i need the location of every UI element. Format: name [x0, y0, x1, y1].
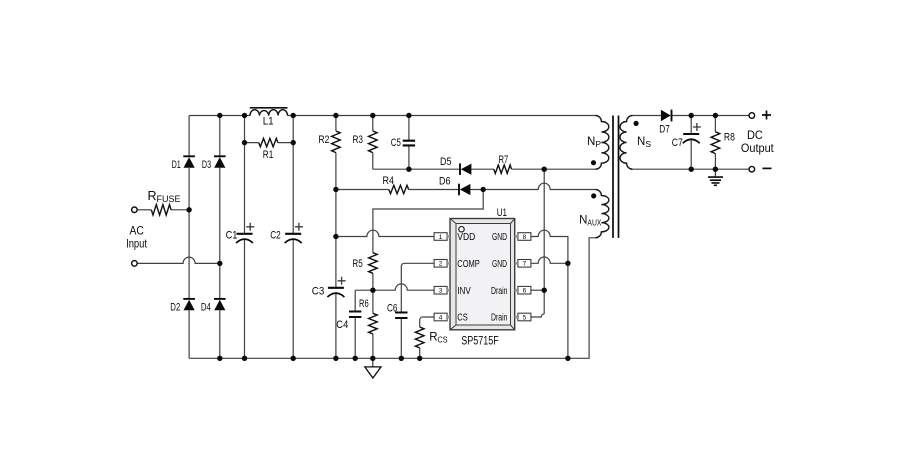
junction R3 top [370, 113, 375, 118]
junction C1 rail [242, 356, 247, 361]
junction R1 right [291, 140, 296, 145]
wire D6 node down-left to R5 [373, 190, 483, 253]
svg-text:C5: C5 [391, 137, 401, 149]
svg-text:SP5715F: SP5715F [461, 333, 499, 347]
junction R2 top [333, 113, 338, 118]
ground (earth ground below R8) [708, 169, 723, 185]
svg-text:AC: AC [130, 223, 145, 237]
svg-text:4: 4 [439, 314, 443, 321]
wire drain line to primary return [543, 169, 545, 314]
resistor R7 [494, 165, 512, 173]
diode D6 [459, 184, 470, 196]
svg-text:D4: D4 [201, 302, 211, 314]
junction neutral-bridge node [217, 261, 222, 266]
capacitor C6 [395, 313, 407, 319]
svg-text:GND: GND [492, 232, 507, 243]
svg-text:DC: DC [747, 128, 763, 142]
resistor R8 [711, 132, 720, 154]
junction R4 left node [333, 187, 338, 192]
transformer auxiliary winding NAUX [595, 190, 608, 238]
wire INV line (hops over C6 leg) [355, 284, 434, 290]
junction C6 rail [399, 356, 404, 361]
wire R8 leg [714, 116, 716, 170]
svg-text:R7: R7 [499, 154, 509, 166]
svg-text:3: 3 [439, 288, 443, 295]
resistor R1 [259, 138, 278, 146]
resistor R3 [369, 131, 378, 153]
diode D1 [183, 156, 195, 167]
wire C5 column [408, 116, 410, 170]
capacitor C4 [349, 312, 361, 318]
svg-text:D7: D7 [659, 124, 670, 136]
node NAUX polarity dot [591, 193, 596, 198]
diode D7 [661, 110, 672, 122]
wire pin6 drain stub [531, 289, 544, 291]
transformer secondary winding NS [620, 116, 633, 170]
pin 1 box [434, 233, 450, 241]
capacitor C1 [236, 223, 254, 243]
svg-text:NP: NP [587, 136, 601, 149]
pin 7 box [515, 260, 531, 268]
junction D6 anode node [481, 187, 486, 192]
op-amp U1 body (SP5715F controller IC) [450, 219, 515, 330]
junction C4 rail [353, 356, 358, 361]
junction fuse-bridge node [186, 207, 191, 212]
svg-text:R3: R3 [353, 134, 364, 146]
wire D6 anode to aux winding (hops over drain line) [470, 183, 595, 189]
junction R8 bottom [713, 167, 718, 172]
junction C3 rail [333, 356, 338, 361]
svg-text:U1: U1 [497, 207, 507, 219]
wire R2-C3 column [335, 116, 337, 359]
junction D3-D4 rail [217, 356, 222, 361]
pin 1 indicator circle [459, 227, 464, 232]
svg-text:NS: NS [637, 136, 651, 149]
svg-text:Input: Input [126, 236, 147, 250]
wire C7 leg [690, 116, 692, 170]
wire D7 to DC+ terminal [672, 115, 749, 117]
svg-text:VDD: VDD [457, 232, 475, 243]
svg-text:7: 7 [523, 261, 527, 268]
wire AC line input to fuse [137, 209, 151, 211]
diode D2 [183, 299, 195, 310]
pin 2 box [434, 260, 450, 268]
svg-text:L1: L1 [263, 116, 274, 128]
pin 3 box [434, 286, 450, 294]
wire R6 to ground rail [372, 290, 374, 358]
wire pin7 GND line (hops over drain line) [531, 257, 568, 263]
wire CS line and RCS leg [420, 317, 434, 358]
terminal DC plus [749, 113, 755, 119]
diode D5 [460, 163, 471, 175]
svg-text:R8: R8 [724, 131, 735, 143]
terminal AC line [132, 207, 138, 213]
diode D4 [214, 299, 226, 310]
resistor RFUSE [151, 205, 171, 215]
svg-text:C7: C7 [672, 137, 683, 149]
wire R4 to D6 cathode [409, 189, 459, 191]
ground (signal ground triangle under R6) [365, 358, 381, 378]
svg-text:D3: D3 [202, 159, 211, 171]
svg-text:RFUSE: RFUSE [148, 189, 181, 204]
svg-text:C2: C2 [270, 230, 281, 242]
junction C2 rail [291, 356, 296, 361]
junction C7 top [689, 113, 694, 118]
wire bridge leg D1-D2 [188, 116, 190, 359]
svg-text:D2: D2 [170, 302, 180, 314]
wire D5 anode to R7 [471, 168, 493, 170]
pin 4 box [434, 313, 450, 321]
minus sign at DC output [763, 167, 772, 169]
junction C1-L1 top [242, 113, 247, 118]
wire C4 leg [354, 290, 356, 358]
junction C7 bottom [689, 167, 694, 172]
wire VDD line (hops over R5 feed) [336, 230, 434, 236]
svg-text:C6: C6 [387, 303, 398, 315]
junction VDD node [333, 234, 338, 239]
wire C2 column [292, 116, 294, 359]
resistor R5 [369, 253, 378, 274]
wire bottom ground rail [189, 238, 595, 358]
wire pin5 drain stub [531, 314, 544, 317]
svg-text:6: 6 [523, 288, 527, 295]
terminal DC minus [749, 166, 755, 172]
svg-text:Drain: Drain [491, 286, 508, 297]
svg-text:2: 2 [439, 261, 443, 268]
svg-text:D1: D1 [172, 159, 181, 171]
wire pin8 GND line (hops over drain line) [531, 230, 568, 358]
wire R1 row stubs [245, 142, 294, 144]
junction R8 top [713, 113, 718, 118]
junction D3 top [217, 113, 222, 118]
capacitor C3 [327, 277, 345, 297]
svg-text:8: 8 [523, 234, 527, 241]
junction IC GND rail [565, 356, 570, 361]
wire R7 to primary bottom [512, 168, 596, 170]
junction R1 left [242, 140, 247, 145]
junction drain pin6 node [542, 288, 547, 293]
diode D3 [214, 156, 226, 167]
svg-text:GND: GND [492, 259, 507, 270]
svg-text:NAUX: NAUX [579, 214, 602, 227]
svg-text:R2: R2 [318, 134, 329, 146]
svg-text:RCS: RCS [429, 332, 448, 345]
svg-text:C4: C4 [336, 319, 348, 331]
junction C5 top [406, 113, 411, 118]
svg-text:CS: CS [457, 313, 468, 324]
wire R5 to INV node [372, 273, 374, 290]
svg-text:Output: Output [741, 141, 774, 155]
wire COMP line and C6 leg [401, 263, 434, 358]
capacitor C7 [683, 123, 701, 143]
svg-text:D6: D6 [439, 176, 451, 188]
resistor R2 [332, 131, 341, 153]
node NS polarity dot [634, 121, 639, 126]
svg-text:R6: R6 [359, 298, 369, 310]
wire R4 line from R2 column [336, 189, 389, 191]
junction INV node [370, 288, 375, 293]
svg-text:C3: C3 [312, 286, 325, 298]
wire C1 column [244, 116, 246, 359]
pin 8 box [515, 233, 531, 241]
svg-text:5: 5 [523, 314, 527, 321]
wire secondary bottom to DC- terminal [633, 168, 749, 170]
plus sign at DC output [762, 111, 771, 120]
pin 5 box [515, 313, 531, 321]
capacitor C2 [285, 223, 303, 243]
junction C2-L1 top [291, 113, 296, 118]
wire snubber line R3 to D5 cathode [373, 168, 460, 170]
svg-text:D5: D5 [440, 156, 452, 168]
svg-text:COMP: COMP [457, 259, 480, 270]
terminal AC neutral [132, 261, 138, 267]
svg-text:1: 1 [439, 234, 443, 241]
junction snubber-primary node [542, 167, 547, 172]
node NP polarity dot [591, 160, 596, 165]
resistor R6 [369, 313, 378, 334]
svg-text:R4: R4 [383, 175, 395, 187]
transformer primary winding NP [595, 116, 608, 170]
resistor RCS [415, 327, 424, 348]
wire AC neutral input (hops over D1-D2 leg) [137, 257, 220, 263]
wire fuse to bridge node [171, 209, 189, 211]
transformer core [613, 116, 619, 238]
svg-text:R1: R1 [263, 149, 274, 161]
junction RCS rail [417, 356, 422, 361]
wire secondary top to D7 [633, 115, 662, 117]
junction C5 bottom snubber node [406, 167, 411, 172]
wire top rail (rectifier output to transformer primary) [189, 115, 595, 117]
junction GND pin7 node [565, 261, 570, 266]
inductor L1 [250, 108, 288, 116]
svg-text:C1: C1 [226, 230, 238, 242]
resistor R4 [389, 185, 409, 193]
wire bridge leg D3-D4 [219, 116, 221, 359]
svg-text:Drain: Drain [491, 313, 508, 324]
junction R6 ground rail [370, 356, 375, 361]
wire R3 column [372, 116, 374, 170]
capacitor C5 [403, 141, 415, 146]
svg-text:R5: R5 [352, 258, 362, 270]
svg-text:INV: INV [457, 286, 471, 297]
pin 6 box [515, 286, 531, 294]
